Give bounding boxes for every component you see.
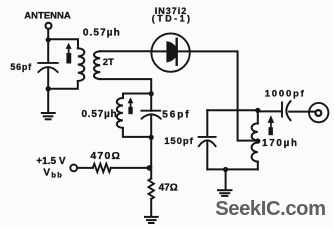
- capacitor C1 56pf plates: [38, 62, 58, 64]
- wire antenna junction to L1 top: [48, 39, 78, 48]
- svg-text:47Ω: 47Ω: [159, 183, 178, 194]
- capacitor C1 56pf top lead: [47, 40, 49, 63]
- tank2 top rail: [123, 94, 151, 99]
- node tank2 bottom: [149, 135, 154, 140]
- node coil tap: [255, 138, 260, 143]
- node tank2 top: [149, 91, 154, 96]
- svg-text:56pf: 56pf: [162, 110, 190, 121]
- inductor L2 secondary coil 2T: [94, 51, 100, 79]
- svg-text:150pf: 150pf: [164, 136, 194, 147]
- output tank bottom rail: [207, 168, 257, 170]
- diode D1 anode: [166, 41, 177, 62]
- output connector J1: [309, 103, 328, 122]
- tuning arrow A1: [66, 43, 72, 64]
- svg-text:+1.5 V: +1.5 V: [36, 156, 66, 167]
- bus down to resistor junction: [150, 137, 152, 178]
- svg-text:0.57µh: 0.57µh: [82, 109, 118, 120]
- wire diode to tap: [190, 51, 257, 140]
- output tank left vertical: [206, 110, 208, 136]
- tuning arrow A3: [268, 115, 275, 135]
- wire antenna down: [47, 29, 49, 40]
- output tank top rail: [207, 109, 257, 111]
- ground G3: [145, 217, 158, 223]
- wire L2 top to diode: [100, 50, 151, 52]
- wire tank top to C4: [258, 110, 282, 112]
- node ground2 junction: [223, 167, 228, 172]
- tuning arrow A2: [128, 97, 134, 114]
- svg-text:170µh: 170µh: [262, 138, 299, 149]
- wire L2 bottom to tank2 top junction: [100, 79, 151, 94]
- svg-text:ANTENNA: ANTENNA: [24, 11, 71, 22]
- svg-text:1000pf: 1000pf: [265, 88, 306, 99]
- inductor L1 0.57uh primary coil: [78, 48, 85, 81]
- capacitor C2 56pf on bus: [150, 94, 152, 111]
- svg-text:56pf: 56pf: [10, 62, 32, 72]
- wire R2 to ground: [150, 199, 152, 216]
- wire junction B down to ground: [47, 89, 49, 113]
- node output tank top: [255, 108, 260, 113]
- resistor R1 470 ohm: [93, 164, 111, 172]
- capacitor C4 1000pf: [281, 102, 283, 116]
- wire terminal to R1: [77, 167, 93, 169]
- inductor L3 0.57uh: [117, 98, 123, 128]
- svg-text:470Ω: 470Ω: [90, 150, 121, 162]
- node B left bottom junction: [46, 86, 51, 91]
- wire R1 to bus junction: [111, 167, 151, 169]
- svg-text:(TD-1): (TD-1): [152, 13, 193, 23]
- resistor R2 47 ohm: [149, 179, 154, 199]
- antenna terminal: [46, 23, 52, 29]
- bias terminal circle: [70, 165, 77, 172]
- ground G2: [218, 190, 232, 196]
- ground G1: [42, 113, 55, 119]
- svg-text:2T: 2T: [103, 57, 114, 68]
- wire C4 to output: [289, 111, 315, 113]
- capacitor C1 bottom lead: [47, 68, 49, 89]
- diode D1 cathode bar: [175, 39, 177, 65]
- svg-text:0.57µh: 0.57µh: [83, 28, 121, 39]
- inductor L4 170uh tapped: [257, 110, 259, 123]
- svg-text:SeekIC.com: SeekIC.com: [215, 198, 325, 220]
- node bias junction: [147, 165, 153, 171]
- wire L1 bottom to junction B: [48, 81, 78, 89]
- capacitor C3 150pf: [199, 136, 216, 138]
- tunnel diode D1 circle: [151, 33, 189, 71]
- wire ground G2: [225, 170, 227, 190]
- wire L3 bottom to tank2 bottom junction: [123, 128, 151, 137]
- wire through diode: [152, 50, 190, 52]
- svg-text:Vbb: Vbb: [43, 168, 63, 180]
- node antenna junction: [46, 37, 51, 42]
